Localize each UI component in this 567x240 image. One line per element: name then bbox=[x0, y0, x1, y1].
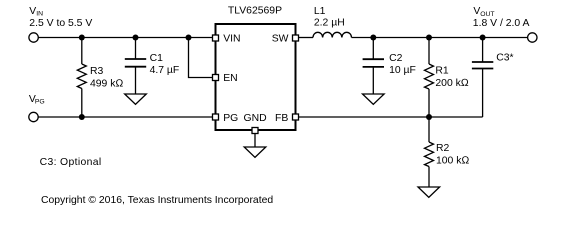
wire C1 lower stub bbox=[135, 67, 137, 94]
pin VIN square bbox=[213, 35, 219, 41]
pin GND square bbox=[252, 128, 258, 134]
svg-text:TLV62569P: TLV62569P bbox=[228, 6, 282, 17]
terminal VOUT bbox=[528, 33, 537, 42]
resistor R2 bbox=[425, 142, 434, 167]
svg-text:OUT: OUT bbox=[480, 11, 494, 18]
ground C2 bbox=[363, 94, 385, 104]
wire R1 lower stub bbox=[428, 89, 430, 117]
svg-text:R2: R2 bbox=[436, 143, 450, 154]
label R2 value bbox=[436, 143, 469, 167]
wire C2 upper stub bbox=[372, 38, 374, 60]
svg-text:PG: PG bbox=[35, 99, 45, 106]
junction R1 top bbox=[426, 35, 432, 41]
svg-text:SW: SW bbox=[272, 33, 289, 44]
wire GND stub bbox=[254, 134, 256, 148]
svg-text:VIN: VIN bbox=[223, 33, 240, 44]
wire FB line bbox=[299, 116, 483, 118]
svg-text:C3: Optional: C3: Optional bbox=[40, 157, 102, 168]
ground C1 bbox=[125, 94, 147, 104]
wire VIN rail bbox=[38, 37, 214, 39]
junction C2 top bbox=[370, 35, 376, 41]
svg-text:EN: EN bbox=[223, 73, 237, 84]
node VIN label bbox=[29, 6, 92, 29]
svg-text:PG: PG bbox=[223, 113, 238, 124]
pin VIN label bbox=[223, 33, 240, 44]
label C1 value bbox=[150, 53, 180, 76]
wire R3 lower stub bbox=[81, 89, 83, 118]
terminal VPG input bbox=[29, 112, 38, 121]
wire R2 upper stub bbox=[428, 117, 430, 142]
pin PG label bbox=[223, 113, 238, 124]
svg-text:C1: C1 bbox=[150, 53, 164, 64]
wire C3 upper stub bbox=[482, 38, 484, 63]
wire PG rail bbox=[38, 116, 214, 118]
svg-text:GND: GND bbox=[244, 113, 267, 124]
capacitor C3 bbox=[472, 62, 493, 69]
pin EN label bbox=[223, 73, 237, 84]
inductor L1 bbox=[313, 32, 352, 37]
note copyright bbox=[41, 195, 273, 206]
svg-text:C3*: C3* bbox=[496, 53, 513, 64]
svg-text:100 kΩ: 100 kΩ bbox=[436, 155, 469, 166]
junction R3 bottom bbox=[79, 114, 85, 120]
pin SW square bbox=[293, 35, 299, 41]
label L1 value bbox=[314, 6, 345, 29]
svg-text:499 kΩ: 499 kΩ bbox=[90, 78, 123, 89]
svg-text:L1: L1 bbox=[314, 6, 326, 17]
junction C1 top bbox=[133, 35, 139, 41]
wire C2 lower stub bbox=[372, 67, 374, 94]
wire C1 upper stub bbox=[135, 38, 137, 60]
terminal VIN input bbox=[29, 33, 38, 42]
label U1 title bbox=[228, 6, 282, 17]
pin GND label bbox=[244, 113, 267, 124]
pin EN square bbox=[213, 75, 219, 81]
wire R1 upper stub bbox=[428, 38, 430, 65]
pin FB square bbox=[293, 114, 299, 120]
svg-text:1.8 V / 2.0 A: 1.8 V / 2.0 A bbox=[473, 18, 530, 29]
junction R3 top bbox=[79, 35, 85, 41]
junction C3 top bbox=[480, 35, 486, 41]
svg-text:R3: R3 bbox=[90, 66, 104, 77]
svg-text:2.2 µH: 2.2 µH bbox=[314, 18, 345, 29]
wire R3 upper stub bbox=[81, 38, 83, 65]
label C3 bbox=[496, 53, 513, 64]
resistor R1 bbox=[425, 64, 434, 89]
note C3 optional bbox=[40, 157, 102, 168]
svg-text:V: V bbox=[29, 6, 36, 17]
junction FB R2 bbox=[426, 114, 432, 120]
wire EN branch bbox=[189, 38, 215, 78]
ground R2 bbox=[418, 187, 440, 197]
label R3 value bbox=[90, 66, 123, 89]
op-amp U1 TLV62569P body bbox=[216, 24, 296, 130]
pin PG square bbox=[213, 114, 219, 120]
svg-text:10 µF: 10 µF bbox=[389, 65, 416, 76]
svg-text:4.7 µF: 4.7 µF bbox=[150, 65, 180, 76]
svg-text:Copyright © 2016, Texas Instru: Copyright © 2016, Texas Instruments Inco… bbox=[41, 195, 273, 206]
wire L1 to VOUT bbox=[352, 37, 528, 39]
svg-text:200 kΩ: 200 kΩ bbox=[435, 78, 468, 89]
ground U1 bbox=[244, 147, 266, 157]
label R1 value bbox=[435, 66, 468, 89]
svg-text:R1: R1 bbox=[435, 66, 449, 77]
svg-text:FB: FB bbox=[275, 113, 288, 124]
svg-text:IN: IN bbox=[36, 11, 43, 18]
wire R2 lower stub bbox=[428, 167, 430, 188]
capacitor C1 bbox=[125, 59, 146, 67]
junction EN tap bbox=[186, 35, 192, 41]
wire SW to L1 bbox=[299, 37, 314, 39]
pin SW label bbox=[272, 33, 289, 44]
pin FB label bbox=[275, 113, 288, 124]
wire C3 lower stub bbox=[482, 69, 484, 118]
node VOUT label bbox=[473, 6, 530, 29]
node VPG label bbox=[29, 94, 45, 106]
svg-text:C2: C2 bbox=[389, 53, 403, 64]
label C2 value bbox=[389, 53, 416, 76]
resistor R3 bbox=[77, 64, 86, 89]
svg-text:2.5 V to 5.5 V: 2.5 V to 5.5 V bbox=[29, 18, 92, 29]
capacitor C2 bbox=[363, 59, 384, 67]
